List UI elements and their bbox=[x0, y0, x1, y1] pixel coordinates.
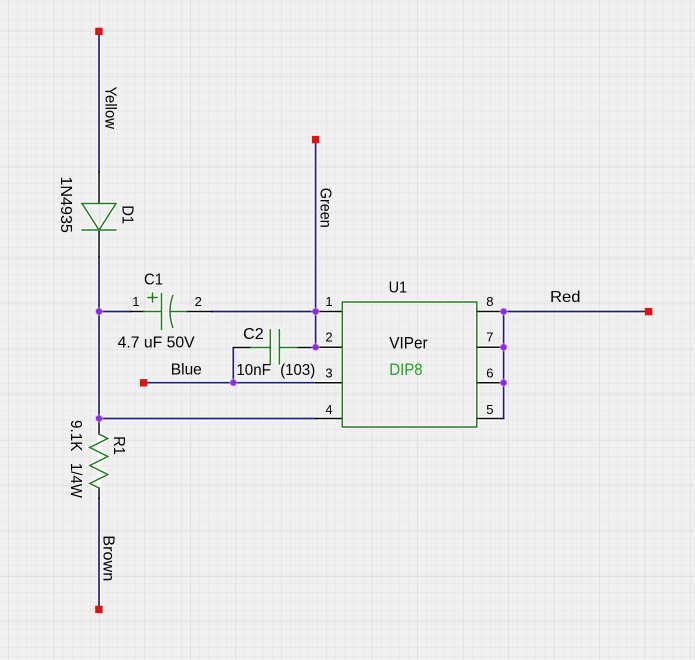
svg-text:VIPer: VIPer bbox=[389, 334, 428, 353]
svg-text:DIP8: DIP8 bbox=[389, 360, 423, 379]
svg-text:Blue: Blue bbox=[171, 362, 202, 379]
svg-text:C1: C1 bbox=[144, 272, 163, 289]
svg-text:5: 5 bbox=[486, 402, 493, 417]
svg-text:Brown: Brown bbox=[100, 535, 117, 581]
svg-text:Red: Red bbox=[550, 289, 581, 306]
svg-text:8: 8 bbox=[486, 294, 493, 309]
svg-text:Yellow: Yellow bbox=[102, 87, 119, 130]
svg-text:C2: C2 bbox=[243, 326, 264, 343]
svg-text:1: 1 bbox=[325, 294, 332, 309]
svg-text:10nF: 10nF bbox=[236, 362, 271, 379]
svg-text:4: 4 bbox=[325, 402, 332, 417]
svg-text:1: 1 bbox=[132, 294, 139, 309]
svg-text:7: 7 bbox=[486, 330, 493, 345]
svg-text:9.1K: 9.1K bbox=[67, 420, 84, 452]
svg-text:D1: D1 bbox=[119, 205, 136, 224]
svg-text:Green: Green bbox=[317, 188, 334, 228]
svg-text:3: 3 bbox=[325, 366, 332, 381]
svg-text:R1: R1 bbox=[110, 436, 127, 455]
svg-text:2: 2 bbox=[325, 330, 332, 345]
svg-text:6: 6 bbox=[486, 366, 493, 381]
svg-text:1/4W: 1/4W bbox=[67, 463, 84, 499]
svg-text:1N4935: 1N4935 bbox=[57, 176, 74, 233]
svg-text:(103): (103) bbox=[280, 362, 315, 379]
svg-text:U1: U1 bbox=[389, 280, 408, 297]
svg-text:4.7 uF 50V: 4.7 uF 50V bbox=[118, 335, 195, 352]
svg-text:2: 2 bbox=[195, 294, 202, 309]
